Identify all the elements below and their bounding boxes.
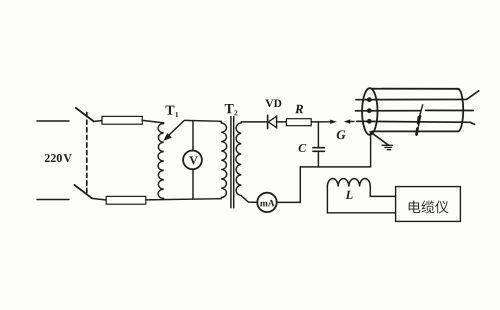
wire <box>241 121 267 123</box>
wire: AC supply top terminal <box>37 120 69 122</box>
wire with right arrowhead (spark gap left electrode) <box>311 120 337 124</box>
diode VD <box>268 115 277 128</box>
label C <box>299 144 307 152</box>
cable core conductor (bottom) <box>357 121 475 124</box>
spark gap right electrode (left arrowhead with dashed lead) <box>344 119 358 123</box>
label VD <box>265 99 281 107</box>
transformer T2 core <box>231 117 234 208</box>
milliammeter mA <box>257 193 276 212</box>
label G <box>337 130 346 139</box>
cable end-face ellipse <box>362 88 377 135</box>
wire <box>277 121 287 123</box>
label T1 <box>166 106 175 115</box>
node: cable core terminal (bottom) <box>367 119 372 124</box>
node: cable core terminal (top) <box>367 97 372 102</box>
autotransformer T1 winding <box>158 124 164 199</box>
wire (bottom rail) <box>146 199 222 200</box>
wire (return bus horizontal) <box>300 166 370 168</box>
wire (L left lead) <box>327 187 395 213</box>
wire <box>94 120 102 123</box>
voltmeter V <box>183 151 202 170</box>
cable fault mark <box>417 105 423 135</box>
wire: AC supply bottom terminal <box>37 199 69 201</box>
wire (return bus vertical) <box>299 167 301 203</box>
wire <box>277 201 301 203</box>
fuse FU2 (bottom) <box>106 196 146 204</box>
cable sheath top line <box>372 88 459 90</box>
label R <box>295 105 303 114</box>
switch QS blade (top pole) <box>76 108 94 122</box>
transformer T2 secondary winding <box>236 123 241 196</box>
T1 wiper arrow <box>163 121 184 141</box>
wire (voltmeter bottom lead) <box>192 169 194 199</box>
wire <box>92 198 106 200</box>
cable right end cap <box>458 89 463 132</box>
resistor R <box>286 119 311 126</box>
transformer T2 primary winding <box>221 121 226 197</box>
wire (L right lead) <box>370 187 395 197</box>
inductor L (pickup coil) <box>327 179 370 187</box>
node: cable core terminal (middle) <box>367 108 372 113</box>
ground symbol <box>382 145 393 149</box>
fuse FU1 (top) <box>102 116 142 124</box>
cable core conductor (middle) <box>355 110 420 112</box>
cable core conductor (top) <box>356 91 479 100</box>
cable tester box <box>396 187 461 222</box>
label: cable tester (dian lan yi) <box>409 200 449 213</box>
wire <box>241 196 257 203</box>
capacitor C <box>313 122 325 167</box>
cable sheath bottom line <box>372 130 458 132</box>
wire (cable sheath to return bus) <box>370 133 372 167</box>
label L <box>346 191 353 199</box>
switch QS blade (bottom pole) <box>74 185 92 198</box>
wire (voltmeter top lead) <box>192 121 194 151</box>
wire <box>142 120 163 123</box>
label T2 <box>225 104 234 113</box>
switch QS linkage (dashed) <box>86 113 88 193</box>
wire <box>185 119 221 122</box>
ground lead <box>370 132 388 145</box>
value label 220V <box>45 154 62 162</box>
